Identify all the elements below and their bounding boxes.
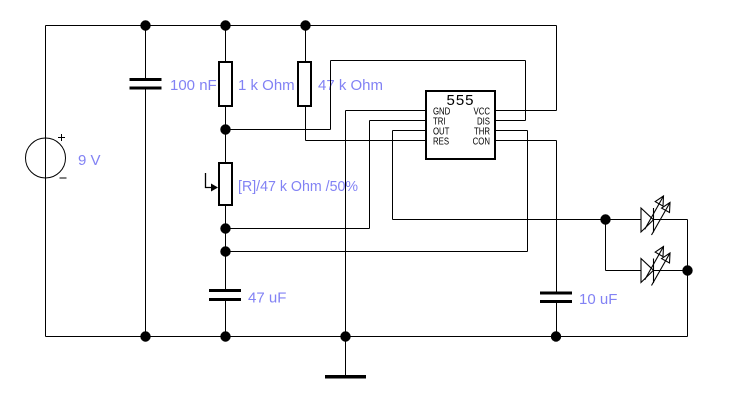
wire GND vertical: [345, 111, 347, 337]
pin label VCC: [474, 105, 491, 116]
wire C1 branch top: [145, 26, 147, 80]
wire LED branch vertical left: [605, 220, 607, 271]
node LED join: [682, 265, 692, 275]
wire left vertical (battery branch): [45, 26, 47, 337]
node bottom C2: [220, 331, 230, 341]
wire C2 bottom: [225, 301, 227, 337]
wire bottom rail: [46, 336, 688, 338]
node trigger: [220, 223, 230, 233]
capacitor C1 100 nF: [130, 78, 162, 90]
wire C1 branch bottom: [145, 90, 147, 337]
svg-text:1 k Ohm: 1 k Ohm: [238, 77, 295, 94]
pin label THR: [474, 125, 490, 136]
node LED branch: [600, 214, 610, 224]
wire R2 bottom to RES pin: [306, 140, 426, 142]
wire pot bottom to cap C2: [225, 206, 227, 290]
capacitor C3 10 uF: [540, 292, 572, 304]
pin label GND: [433, 105, 451, 116]
node top R1: [220, 20, 230, 30]
potentiometer R3 [R]/47 k Ohm /50%: [206, 163, 233, 205]
pin label RES: [433, 135, 449, 146]
wire LED2 cathode: [654, 270, 688, 272]
wire discharge horizontal y60: [331, 60, 526, 62]
wire discharge down to DIS: [525, 61, 527, 121]
pin label CON: [473, 135, 490, 146]
wire OUT row to LEDs: [393, 219, 642, 221]
svg-text:10 uF: 10 uF: [579, 291, 617, 308]
wire THR pin stub: [496, 130, 528, 132]
wire DIS pin stub: [496, 120, 526, 122]
wire trigger vertical: [369, 121, 371, 229]
wire LED branch vertical right: [687, 220, 689, 337]
wire trigger row: [226, 228, 370, 230]
resistor R1 1 k Ohm: [219, 62, 232, 106]
wire discharge vertical up: [330, 61, 332, 130]
wire LED1 cathode: [654, 219, 688, 221]
wire LED2 anode: [606, 270, 642, 272]
svg-text:555: 555: [446, 92, 474, 109]
ground: [325, 375, 366, 379]
svg-text:CON: CON: [473, 135, 490, 146]
svg-text:47 k Ohm: 47 k Ohm: [318, 77, 383, 94]
wire threshold row: [226, 251, 528, 253]
wire R2 bottom down: [305, 107, 307, 141]
node bottom C3: [551, 331, 561, 341]
LED D2: [641, 247, 670, 286]
node threshold: [220, 246, 230, 256]
svg-text:47 uF: 47 uF: [248, 290, 286, 307]
node bottom C1: [140, 331, 150, 341]
svg-text:9 V: 9 V: [78, 152, 101, 169]
pin label OUT: [433, 125, 450, 136]
wire discharge node horizontal: [226, 129, 331, 131]
LED D1: [641, 196, 670, 235]
wire CON pin stub: [496, 140, 557, 142]
capacitor C2 47 uF: [209, 289, 241, 301]
svg-text:[R]/47 k Ohm /50%: [R]/47 k Ohm /50%: [238, 178, 358, 195]
svg-text:100 nF: 100 nF: [170, 77, 217, 94]
wire R1 top: [225, 26, 227, 62]
wire pot top: [225, 130, 227, 163]
wire OUT pin stub: [393, 130, 426, 132]
node discharge: [220, 124, 230, 134]
node bottom ground: [340, 331, 350, 341]
svg-text:RES: RES: [433, 135, 449, 146]
wire VCC vertical to rail: [556, 26, 558, 111]
wire OUT vertical: [392, 131, 394, 220]
wire R2 top: [305, 26, 307, 62]
wire threshold vertical: [527, 131, 529, 252]
resistor R2 47 k Ohm: [298, 62, 311, 106]
node top R2: [300, 20, 310, 30]
wire R1 bottom to node: [225, 107, 227, 130]
battery V1 (9 V source): [26, 134, 67, 178]
wire TRI pin stub: [370, 120, 426, 122]
wire C3 bottom: [556, 303, 558, 337]
wire top rail: [46, 25, 557, 27]
pin label DIS: [477, 115, 490, 126]
wire VCC pin stub: [496, 110, 557, 112]
pin label TRI: [433, 115, 446, 126]
wire ground stem: [345, 337, 347, 377]
IC U1 555 timer body: [426, 91, 495, 159]
wire CON vertical to C3: [556, 141, 558, 292]
node top C1: [140, 20, 150, 30]
wire GND pin stub: [346, 110, 426, 112]
